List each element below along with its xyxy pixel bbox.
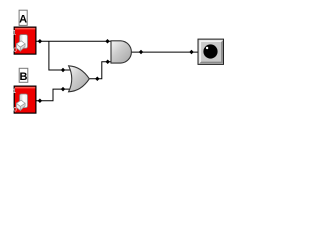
svg-text:B: B (20, 71, 28, 83)
switch B lever left face (16, 103, 20, 110)
label box B (19, 68, 28, 83)
switch B (red input box) (13, 86, 36, 113)
wire net D: AND gate output to LED box (131, 51, 198, 53)
LED dark lamp circle (203, 44, 217, 58)
wire net C: OR gate output up to AND gate bottom input (89, 62, 112, 79)
svg-text:A: A (19, 14, 27, 26)
OR gate U1 (69, 66, 90, 92)
LED highlight dot (206, 47, 208, 49)
connection diamond: OR input 1 pin (61, 68, 66, 73)
switch B plate (20, 94, 28, 108)
connection diamond: AND input 2 pin (105, 60, 110, 65)
LED output box (198, 39, 224, 64)
connection diamond: AND input 1 pin (105, 39, 110, 44)
connection diamond: switch A output pin (38, 39, 43, 44)
label box A (19, 10, 27, 25)
LED bevel highlight top/left (199, 40, 223, 63)
switch B lever right face (20, 103, 25, 110)
switch A lever right face (20, 44, 25, 51)
AND gate U2 (111, 41, 131, 63)
wire net B: switch B output to OR gate bottom input (36, 89, 71, 101)
switch B lever top face (16, 100, 25, 106)
switch A plate (20, 35, 28, 49)
switch A lever left face (16, 44, 20, 51)
connection diamond: OR output pin (95, 77, 100, 82)
wire net A: switch A output to AND gate top input (36, 40, 112, 42)
connection diamond: OR input 2 pin (61, 87, 66, 92)
connection diamond: AND output pin (139, 50, 144, 55)
connection diamond: switch B output pin (38, 98, 43, 103)
switch A lever top face (16, 41, 25, 47)
wire net A branch: T junction down to OR gate top input (49, 41, 71, 70)
LED bevel shadow bottom/right (199, 40, 223, 63)
connection diamond: LED input pin (189, 50, 194, 55)
switch A (red input box) (13, 27, 36, 54)
